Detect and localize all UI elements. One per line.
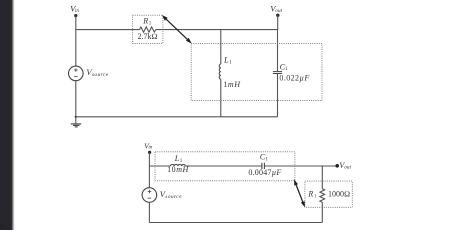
swap arrow (top circuit) xyxy=(162,15,192,44)
wire L1 branch lower (top circuit) xyxy=(220,79,222,117)
voltage source Vsource (top circuit) xyxy=(69,66,84,81)
svg-text:0.0047µF: 0.0047µF xyxy=(248,168,281,177)
node Vout (bottom circuit) label xyxy=(339,161,351,170)
dashed box around L1 and C1 (bottom circuit) xyxy=(155,152,295,181)
capacitor C1 (bottom circuit) xyxy=(262,163,265,169)
svg-text:out: out xyxy=(275,8,282,14)
node Vin (bottom circuit) label xyxy=(144,141,153,150)
svg-text:R: R xyxy=(142,17,148,26)
wire bottom rail (bottom circuit) xyxy=(149,222,322,224)
resistor R1 (top circuit) xyxy=(140,27,156,32)
svg-text:1: 1 xyxy=(149,21,152,26)
capacitor C1 (top circuit) xyxy=(273,72,282,74)
left dark sidebar xyxy=(0,0,15,230)
wire source to bottom rail (top circuit) xyxy=(75,81,77,117)
svg-text:in: in xyxy=(148,146,152,151)
swap arrow (bottom circuit) xyxy=(294,179,305,207)
wire top rail segment C1 to Vout (bottom circuit) xyxy=(265,165,338,167)
inductor L1 (top circuit) xyxy=(219,64,221,79)
wire L1 branch upper (top circuit) xyxy=(220,30,222,64)
wire bottom rail (top circuit) xyxy=(76,116,278,118)
label R1 (top circuit) xyxy=(142,17,152,27)
inductor L1 (bottom circuit) xyxy=(170,164,185,166)
wire C1 branch upper (top circuit) xyxy=(277,30,279,72)
label Vsource (bottom circuit) xyxy=(160,189,182,200)
ground xyxy=(71,117,81,127)
svg-text:1: 1 xyxy=(285,67,288,72)
svg-text:1: 1 xyxy=(265,157,268,162)
wire C1 branch lower (top circuit) xyxy=(277,74,279,117)
svg-text:1mH: 1mH xyxy=(223,80,241,89)
wire top rail segment Vin to L1 (bottom circuit) xyxy=(149,165,170,167)
wire source to bottom rail (bottom circuit) xyxy=(148,202,150,222)
svg-text:0.022µF: 0.022µF xyxy=(279,73,309,82)
node Vin (top circuit) label xyxy=(70,4,79,14)
resistor R1 (bottom circuit) xyxy=(320,189,325,203)
wire Vin to source (bottom circuit) xyxy=(148,152,150,187)
node Vout (bottom circuit) dot xyxy=(335,164,339,168)
node Vin (bottom circuit) dot xyxy=(148,151,151,154)
svg-text:1: 1 xyxy=(314,194,317,199)
svg-text:R: R xyxy=(307,190,313,199)
wire Vout stub xyxy=(277,15,279,29)
wire R1 branch upper (bottom circuit) xyxy=(321,166,323,189)
label C1 (bottom circuit) xyxy=(260,153,268,163)
dashed box around R1 (bottom circuit) xyxy=(305,181,352,207)
node Vout (top circuit) label xyxy=(270,4,282,14)
label Vsource (top circuit) xyxy=(86,67,108,78)
node Vout (top circuit) dot xyxy=(276,14,279,17)
node Vin (top circuit) dot xyxy=(74,14,77,17)
wire R1 branch lower (bottom circuit) xyxy=(321,202,323,222)
wire top rail segment L1 to C1 (bottom circuit) xyxy=(185,165,261,167)
dashed box around L1 and C1 (top circuit) xyxy=(191,43,322,100)
svg-text:source: source xyxy=(92,72,109,78)
dashed box around R1 xyxy=(133,15,163,43)
svg-text:2.7kΩ: 2.7kΩ xyxy=(138,32,158,41)
voltage source Vsource (bottom circuit) xyxy=(142,188,157,203)
svg-text:L: L xyxy=(223,56,229,65)
label C1 (top circuit) xyxy=(280,62,288,72)
label L1 (top circuit) xyxy=(223,56,232,66)
label L1 (bottom circuit) xyxy=(174,154,183,164)
wire top rail left segment (Vin to R1) xyxy=(76,29,140,31)
svg-text:1: 1 xyxy=(180,159,183,164)
wire top rail right segment (R1 to C1 corner) xyxy=(156,29,278,31)
junction dot at ground corner (top circuit) xyxy=(75,116,77,118)
label R1 (bottom circuit) xyxy=(307,190,317,200)
svg-text:source: source xyxy=(165,194,182,200)
svg-text:1000Ω: 1000Ω xyxy=(328,190,350,199)
svg-text:in: in xyxy=(75,8,79,14)
wire Vin to source (top circuit) xyxy=(75,16,77,67)
svg-text:out: out xyxy=(344,164,351,170)
svg-text:1: 1 xyxy=(229,61,232,66)
